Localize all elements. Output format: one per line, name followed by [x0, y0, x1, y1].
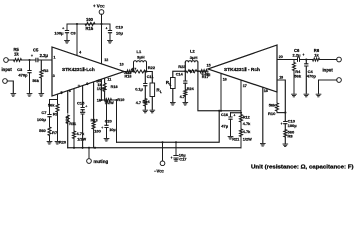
svg-text:+: + — [85, 104, 87, 108]
svg-text:470p: 470p — [307, 74, 317, 79]
terminal input-R-gnd — [337, 78, 342, 83]
svg-text:input: input — [323, 68, 334, 73]
ground pin18 — [260, 144, 265, 147]
svg-text:Unit (resistance: Ω, capacitan: Unit (resistance: Ω, capacitance: F) — [251, 165, 354, 171]
svg-text:100μ: 100μ — [288, 123, 298, 128]
pin 9 label — [96, 80, 98, 84]
svg-text:4.7: 4.7 — [131, 67, 136, 71]
node C4 junction — [305, 58, 307, 60]
svg-text:C17: C17 — [179, 157, 187, 162]
svg-text:6: 6 — [69, 89, 71, 93]
pin 15 label — [207, 64, 211, 68]
svg-text:R15: R15 — [86, 26, 94, 31]
resistor R8 560 — [284, 129, 295, 143]
ground R14 — [143, 110, 148, 113]
svg-text:18: 18 — [264, 89, 268, 93]
svg-text:4.7: 4.7 — [180, 95, 185, 99]
svg-text:+: + — [105, 27, 107, 31]
svg-text:16: 16 — [223, 77, 227, 81]
svg-text:4.7: 4.7 — [136, 101, 141, 105]
svg-text:C15: C15 — [77, 101, 85, 106]
svg-text:C5: C5 — [33, 48, 39, 53]
svg-text:1: 1 — [54, 56, 56, 60]
capacitor C20 — [101, 100, 116, 138]
wire R7-gnd — [49, 136, 51, 141]
svg-text:+: + — [171, 156, 173, 160]
svg-text:3μH: 3μH — [190, 55, 198, 60]
capacitor C11 0.1u — [135, 72, 153, 99]
wire pin10 stub — [100, 79, 102, 100]
resistor R16 0.22 — [124, 70, 133, 79]
pin 18 stub — [262, 87, 264, 142]
svg-text:1/2W: 1/2W — [243, 138, 252, 142]
pin 11 stub label — [107, 78, 111, 82]
svg-text:STK4231Ⅱ - Rch: STK4231Ⅱ - Rch — [224, 66, 260, 73]
svg-text:8: 8 — [86, 82, 88, 86]
ground C19 — [108, 41, 113, 44]
svg-text:R11: R11 — [69, 122, 76, 126]
svg-text:+: + — [31, 54, 33, 58]
wire ground bus — [68, 147, 241, 149]
speaker load RL right — [166, 78, 175, 102]
svg-text:R21: R21 — [232, 138, 239, 142]
svg-text:input: input — [2, 67, 13, 72]
svg-text:56k: 56k — [269, 103, 276, 108]
svg-text:4.7k: 4.7k — [243, 122, 251, 126]
resistor R17 0.22 — [200, 70, 209, 80]
svg-text:C19: C19 — [116, 24, 124, 29]
svg-text:3: 3 — [53, 74, 55, 78]
resistor R5 — [14, 47, 22, 62]
resistor R7 — [39, 127, 58, 136]
ground input-L — [11, 94, 16, 97]
svg-text:10μ: 10μ — [109, 128, 116, 132]
wire nodeB-RL — [147, 72, 153, 84]
svg-text:100: 100 — [86, 17, 94, 22]
wire NFB riser — [50, 94, 58, 114]
ground RL right — [170, 103, 175, 106]
pin 20 label — [279, 55, 283, 59]
svg-text:R10: R10 — [268, 111, 276, 116]
wire C6-R6 — [300, 59, 313, 61]
pin 4 label — [79, 50, 81, 54]
node -Vcc drop — [161, 141, 163, 143]
ground C4 — [304, 94, 309, 97]
svg-text:4.7k: 4.7k — [76, 131, 85, 136]
capacitor C4 — [305, 60, 317, 94]
svg-text:20: 20 — [279, 55, 283, 59]
ground RL left — [150, 110, 155, 113]
node A left — [132, 70, 134, 72]
svg-text:19: 19 — [279, 76, 283, 80]
svg-text:56k: 56k — [294, 74, 301, 79]
svg-text:R7: R7 — [52, 130, 58, 135]
svg-text:5: 5 — [61, 91, 63, 95]
pin 3 label — [53, 74, 55, 78]
svg-text:R18: R18 — [111, 85, 118, 89]
node rail-Vcc — [100, 23, 102, 25]
svg-text:R22: R22 — [148, 65, 156, 70]
svg-text:56k: 56k — [48, 102, 55, 107]
node B left — [145, 70, 147, 72]
capacitor C10 100u — [281, 118, 298, 129]
svg-text:R12: R12 — [243, 116, 250, 120]
resistor R15 — [85, 17, 95, 31]
node C17 drop — [175, 141, 177, 143]
resistor R11 4.7k — [65, 115, 76, 148]
resistor R9 — [48, 102, 59, 116]
resistor R14 4.7 — [136, 99, 151, 110]
resistor R12 4.7k — [240, 111, 252, 129]
svg-text:1/2W: 1/2W — [97, 87, 106, 91]
svg-text:R3: R3 — [43, 68, 49, 73]
resistor R21 4.7k 1/2W — [232, 129, 252, 148]
svg-text:R8: R8 — [288, 134, 294, 139]
svg-text:R19: R19 — [117, 98, 124, 102]
pin 8 label — [86, 82, 88, 86]
svg-text:R24: R24 — [187, 87, 195, 91]
node C3 junction — [28, 59, 30, 61]
resistor R6 — [313, 48, 320, 61]
node R20-bus — [73, 147, 75, 149]
capacitor C16 47u — [221, 113, 235, 136]
svg-text:11: 11 — [107, 78, 111, 82]
svg-text:−VCC: −VCC — [154, 169, 165, 174]
wire R19 to -Vcc bus — [116, 100, 118, 142]
capacitor C19 — [105, 24, 123, 40]
capacitor C9 — [54, 24, 76, 40]
inductor L1 3uH — [134, 49, 147, 71]
svg-text:1/2W: 1/2W — [77, 137, 86, 141]
capacitor C3 — [17, 60, 31, 93]
svg-text:L2: L2 — [190, 49, 195, 54]
resistor R3 — [32, 60, 49, 93]
ground R7 — [47, 142, 52, 145]
wire supply rail — [67, 23, 110, 25]
wire R6-input — [320, 59, 337, 61]
node rail-pin4 — [76, 23, 78, 25]
ground input-R — [316, 94, 321, 97]
ground R8 — [283, 144, 288, 147]
wire -Vcc bus — [117, 111, 220, 143]
ground R9 — [55, 142, 60, 145]
svg-text:10: 10 — [120, 62, 124, 66]
svg-text:10μ: 10μ — [116, 31, 123, 36]
ground R3 — [39, 94, 44, 97]
capacitor C5 — [31, 48, 49, 62]
capacitor C15 — [77, 86, 87, 148]
note units — [251, 165, 354, 171]
node C15-bus — [82, 147, 84, 149]
svg-text:R16: R16 — [125, 75, 132, 79]
wire R5-C5 — [22, 59, 36, 61]
svg-text:56k: 56k — [32, 78, 39, 83]
resistor R20 4.7k 1/2W — [59, 89, 86, 148]
resistor R18 1k 1/2W — [97, 78, 118, 100]
op-amp U2 STK4231II-Rch — [208, 45, 277, 92]
pin 10 stub label — [98, 79, 102, 83]
wire input-L-gnd — [7, 81, 13, 93]
pin 17 label — [243, 84, 247, 88]
inductor L2 3uH — [185, 49, 198, 72]
resistor R13 100 — [91, 82, 102, 148]
pin 5 label — [61, 91, 63, 95]
svg-text:1k: 1k — [314, 53, 319, 58]
pin 10 label — [120, 62, 124, 66]
capacitor C6 — [293, 48, 305, 61]
ground C3 — [27, 94, 32, 97]
svg-text:470p: 470p — [18, 73, 28, 78]
svg-text:17: 17 — [243, 84, 247, 88]
pin 16 label — [223, 77, 227, 81]
svg-text:+: + — [302, 53, 304, 57]
svg-text:+: + — [281, 122, 283, 126]
svg-text:C3: C3 — [17, 67, 23, 72]
node R10-C10 — [284, 112, 286, 114]
op-amp U1 STK4231II-Lch — [52, 47, 124, 96]
svg-text:12: 12 — [104, 58, 108, 62]
svg-text:R14: R14 — [143, 100, 151, 104]
wire input-L — [8, 59, 13, 61]
pin 12 label — [104, 58, 108, 62]
svg-text:C11: C11 — [147, 75, 154, 79]
pin 7 label — [78, 84, 80, 88]
svg-text:L: L — [169, 83, 171, 87]
svg-text:L: L — [160, 90, 162, 94]
svg-text:47μ: 47μ — [221, 124, 228, 129]
svg-text:4.7k: 4.7k — [243, 130, 251, 134]
svg-text:C14: C14 — [176, 73, 184, 77]
svg-text:R23: R23 — [178, 64, 186, 69]
wire C5-pin1 — [38, 59, 52, 61]
svg-text:C7: C7 — [41, 110, 47, 115]
capacitor C14 — [176, 71, 187, 88]
svg-text:+ VCC: + VCC — [93, 4, 105, 9]
pin 19 label — [279, 76, 283, 80]
svg-text:R17: R17 — [202, 75, 209, 79]
node C11 — [144, 70, 146, 72]
capacitor C17 10u — [171, 142, 188, 161]
wire pin4 riser — [76, 24, 78, 56]
ground C9 — [65, 41, 70, 44]
svg-text:R20: R20 — [59, 140, 66, 144]
wire nodeB-RL right — [173, 71, 186, 77]
svg-text:C20: C20 — [105, 119, 112, 123]
node bus-pin16line — [218, 110, 220, 112]
svg-text:4: 4 — [79, 50, 81, 54]
wire input-R-gnd — [319, 80, 337, 93]
terminal input-L — [2, 58, 13, 72]
pin 6 stub — [68, 89, 71, 113]
pin 17 stub — [240, 80, 242, 111]
svg-text:STK4231Ⅱ-Lch: STK4231Ⅱ-Lch — [62, 66, 95, 73]
wire R9-gnd — [57, 112, 59, 141]
svg-text:100μ: 100μ — [37, 117, 47, 122]
wire C16 branch — [231, 113, 242, 116]
pin 22 label — [206, 73, 210, 77]
wire pin20 — [277, 59, 298, 61]
svg-text:560: 560 — [39, 128, 46, 133]
svg-text:+: + — [233, 113, 235, 117]
speaker load RL left — [150, 83, 162, 109]
pin 16 stub — [220, 73, 222, 110]
resistor R10 56k — [268, 92, 285, 116]
wire Vcc vertical — [101, 14, 103, 64]
node R13-bus — [94, 147, 96, 149]
terminal -Vcc — [154, 142, 165, 173]
capacitor C7 — [37, 110, 51, 127]
node R19-right — [115, 99, 117, 101]
node B right — [184, 70, 186, 72]
svg-text:C16: C16 — [221, 113, 228, 117]
node C16 branch — [240, 112, 242, 114]
pin 1 label — [54, 56, 56, 60]
terminal input-L-gnd — [3, 79, 8, 84]
resistor R23 4.7 — [178, 64, 197, 74]
svg-text:10: 10 — [98, 79, 102, 83]
resistor R22 4.7 — [131, 65, 156, 73]
wire pin19 stub — [277, 80, 285, 122]
svg-text:7: 7 — [78, 84, 80, 88]
svg-text:4.7: 4.7 — [189, 70, 194, 74]
svg-text:2.2μ: 2.2μ — [293, 53, 302, 58]
ground C20 — [104, 139, 109, 142]
ground C16 — [228, 137, 233, 140]
svg-text:15: 15 — [207, 64, 211, 68]
ground R24 — [183, 103, 188, 106]
terminal muting — [87, 147, 109, 164]
resistor R19 1k 1/2W — [97, 98, 125, 105]
terminal input-R — [323, 57, 342, 72]
svg-text:3μH: 3μH — [137, 54, 145, 59]
svg-text:4.7k: 4.7k — [65, 116, 69, 124]
svg-text:+: + — [101, 126, 103, 130]
node A right — [197, 70, 200, 72]
node pin16-line — [220, 110, 222, 112]
resistor R4 — [293, 60, 302, 94]
svg-text:muting: muting — [94, 159, 109, 164]
svg-text:C9: C9 — [71, 31, 77, 36]
resistor R24 4.7 — [180, 87, 195, 102]
node R18-R19 — [100, 99, 102, 101]
ground R4 — [292, 94, 297, 97]
power +Vcc terminal — [93, 4, 105, 15]
svg-text:100μ: 100μ — [54, 31, 64, 36]
pin 18 label — [264, 89, 268, 93]
svg-text:0.1μ: 0.1μ — [135, 87, 143, 91]
svg-text:2.2μ: 2.2μ — [40, 53, 49, 58]
svg-text:1k: 1k — [14, 52, 19, 57]
wire nodeA down — [198, 71, 241, 111]
